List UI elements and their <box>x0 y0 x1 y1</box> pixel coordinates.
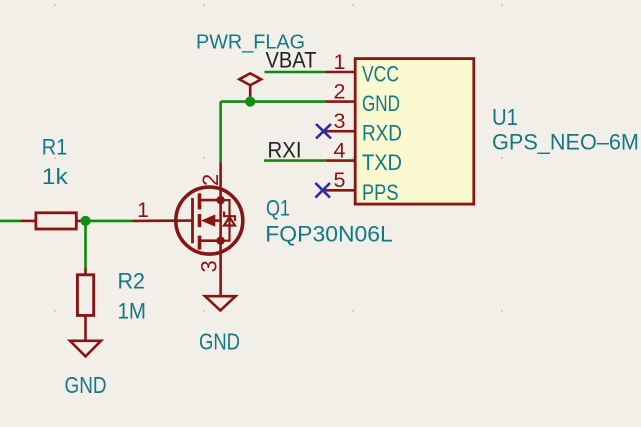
transistor Q1 source pin line <box>219 241 222 297</box>
transistor Q1 drain pin line <box>219 163 222 201</box>
svg-text:2: 2 <box>334 79 346 103</box>
U1 pin 5 stub <box>323 189 356 192</box>
transistor Q1 source junction dot <box>216 237 224 245</box>
resistor R2 body <box>77 275 93 316</box>
transistor Q1 body-diode branch <box>221 200 230 241</box>
transistor Q1 bulk line <box>214 219 221 222</box>
svg-text:3: 3 <box>334 109 346 133</box>
transistor Q1 body circle <box>176 187 243 254</box>
svg-text:GND: GND <box>199 328 240 354</box>
svg-text:FQP30N06L: FQP30N06L <box>265 222 393 247</box>
transistor Q1 channel segment middle <box>198 214 202 227</box>
svg-text:R1: R1 <box>42 135 68 160</box>
transistor Q1 channel segment top <box>198 193 202 209</box>
transistor Q1 drain junction dot <box>216 196 224 204</box>
transistor Q1 gate plate <box>191 198 194 243</box>
U1 pin 4 stub <box>326 159 355 162</box>
wire: RXI to U1 pin 4 <box>264 159 326 162</box>
svg-text:GPS_NEO–6M: GPS_NEO–6M <box>492 130 639 155</box>
U1 pin 1 stub <box>326 71 356 74</box>
resistor R1 pin 2 stub <box>76 220 85 223</box>
wire: GND net horizontal to U1 pin 2 <box>221 100 326 103</box>
no-connect X on pin 3 <box>316 124 331 139</box>
svg-text:5: 5 <box>334 168 346 192</box>
power flag PWR_FLAG diamond <box>239 73 261 85</box>
svg-text:GND: GND <box>362 91 400 116</box>
transistor Q1 body-diode cathode bar <box>224 212 235 221</box>
transistor Q1 internal vertical line <box>219 200 222 241</box>
svg-text:TXD: TXD <box>362 150 402 175</box>
ground symbol below Q1 <box>205 296 236 310</box>
U1 pin 3 stub <box>323 130 355 133</box>
wire: junction to Q1 gate <box>86 220 133 223</box>
svg-text:VBAT: VBAT <box>266 48 317 73</box>
transistor Q1 channel segment bottom <box>198 236 202 250</box>
transistor Q1 gate pin line <box>133 219 193 222</box>
svg-text:R2: R2 <box>118 269 146 294</box>
wire: net to R1 left <box>0 220 21 223</box>
svg-text:PPS: PPS <box>362 180 399 205</box>
U1 pin 2 stub <box>326 100 356 103</box>
node A junction dot at R1/R2 <box>80 216 90 226</box>
wire: VBAT to U1 pin 1 <box>265 71 326 74</box>
svg-text:RXD: RXD <box>362 121 402 146</box>
svg-text:GND: GND <box>65 372 107 398</box>
svg-text:1M: 1M <box>118 299 147 324</box>
transistor Q1 bulk arrow <box>201 214 215 226</box>
resistor R2 pin 1 stub <box>84 268 87 275</box>
wire: junction down to R2 <box>84 221 87 268</box>
svg-text:1: 1 <box>137 199 149 222</box>
no-connect X on pin 5 <box>315 183 330 198</box>
resistor R1 body <box>36 213 76 229</box>
svg-text:1k: 1k <box>42 164 69 189</box>
wire: GND net corner down to Q1 drain <box>219 102 222 163</box>
svg-text:VCC: VCC <box>362 62 399 87</box>
resistor R1 pin 1 stub <box>21 220 36 223</box>
transistor Q1 drain internal line <box>200 199 221 202</box>
node B junction dot on GND net <box>245 97 255 107</box>
svg-text:U1: U1 <box>492 104 518 130</box>
IC U1 body <box>355 59 474 205</box>
transistor Q1 body-diode triangle <box>224 217 235 226</box>
power flag stem <box>249 85 252 101</box>
ground symbol below R2 <box>70 341 101 357</box>
svg-text:Q1: Q1 <box>266 196 290 221</box>
transistor Q1 source internal line <box>200 239 221 242</box>
svg-text:1: 1 <box>334 50 346 74</box>
svg-text:RXI: RXI <box>268 138 302 163</box>
svg-text:2: 2 <box>198 174 223 186</box>
resistor R2 pin 2 stub <box>84 315 87 340</box>
svg-text:4: 4 <box>334 138 346 162</box>
svg-text:3: 3 <box>197 260 222 272</box>
